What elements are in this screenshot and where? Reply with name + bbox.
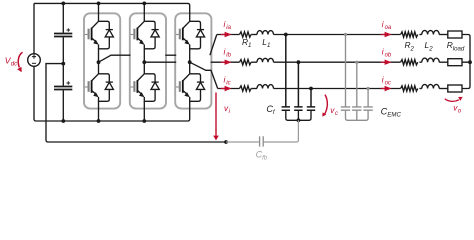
wire phase b xyxy=(251,61,257,63)
wire negative DC rail xyxy=(34,66,190,121)
wire phase a from leg1 xyxy=(99,55,131,62)
svg-text:c: c xyxy=(335,111,338,117)
inductor L2 phase b xyxy=(422,58,439,62)
arrow Vdc xyxy=(17,52,22,72)
wire phase c to load xyxy=(439,88,448,90)
IGBT module box leg 3 xyxy=(175,13,211,108)
node rail leg1 xyxy=(97,2,101,6)
node neg leg1 xyxy=(97,119,101,123)
label R1 xyxy=(242,37,251,49)
label CEMC xyxy=(381,106,402,118)
transistor T4 lower leg2 with diode xyxy=(131,74,160,102)
arrow voltage vc xyxy=(322,95,327,117)
svg-text:load: load xyxy=(453,45,465,52)
node rail leg2 xyxy=(142,2,146,6)
resistor R2 phase b xyxy=(401,60,418,65)
capacitor CEMC phase a xyxy=(341,35,350,111)
label L2 xyxy=(425,40,434,52)
label vi xyxy=(224,104,231,115)
svg-text:i: i xyxy=(224,20,226,29)
arrow current iia xyxy=(221,32,232,37)
wire phase a gap segment xyxy=(165,54,176,56)
arrow voltage vo xyxy=(445,97,463,102)
arrow voltage vi xyxy=(213,93,219,141)
voltage source Vdc xyxy=(28,54,41,67)
node neg leg2 xyxy=(142,119,146,123)
node leg2 midpoint xyxy=(142,60,146,64)
arrow current iib xyxy=(221,60,232,65)
svg-text:2: 2 xyxy=(428,45,433,52)
label R2 xyxy=(405,40,415,52)
IGBT module box leg 2 xyxy=(130,13,166,108)
svg-text:i: i xyxy=(224,75,226,84)
wire phase a xyxy=(251,34,257,36)
node neg cap xyxy=(61,119,65,123)
svg-text:oa: oa xyxy=(385,25,392,31)
svg-text:i: i xyxy=(224,48,226,57)
wire phase a xyxy=(419,34,421,36)
inductor L2 phase c xyxy=(422,84,439,88)
IGBT module box leg 1 xyxy=(84,13,120,108)
wire phase c line left xyxy=(218,88,240,90)
wire positive DC rail xyxy=(34,3,190,21)
wire leg2 collector xyxy=(143,3,145,21)
svg-text:1: 1 xyxy=(248,42,251,49)
node Cf tap b xyxy=(297,60,301,64)
label Rload xyxy=(447,40,465,52)
node rail cap xyxy=(61,2,65,6)
resistor R2 phase a xyxy=(401,32,418,37)
inductor L1 phase b xyxy=(257,58,274,62)
svg-text:2: 2 xyxy=(410,45,415,52)
node right bus phase b xyxy=(468,60,472,64)
svg-text:EMC: EMC xyxy=(387,112,401,119)
wire CEMC star bus xyxy=(346,111,369,121)
capacitor DC-link lower xyxy=(54,81,72,89)
wire phase a line left xyxy=(217,34,240,36)
label Cfb xyxy=(256,150,268,162)
arrow current iob xyxy=(381,60,392,65)
transistor T1 upper leg1 with diode xyxy=(85,21,114,49)
wire phase a to load xyxy=(439,34,448,36)
inductor L2 phase a xyxy=(422,30,439,34)
label iob xyxy=(382,48,392,59)
capacitor DC-link upper xyxy=(54,28,72,36)
capacitor Cf phase c branch xyxy=(307,89,315,111)
node Cf star xyxy=(297,118,301,122)
inductor L1 phase c xyxy=(257,85,274,89)
label iia xyxy=(224,20,232,31)
capacitor Cfb xyxy=(260,136,264,146)
svg-text:i: i xyxy=(382,20,384,29)
label ioc xyxy=(382,75,391,86)
resistor R2 phase c xyxy=(401,86,418,91)
transistor T6 lower leg3 with diode xyxy=(176,74,205,102)
wire leg1 emitter xyxy=(98,101,100,121)
capacitor Cf phase a branch xyxy=(282,35,290,111)
arrow current iic xyxy=(221,86,232,91)
wire leg1 midpoint xyxy=(98,49,100,74)
wire Cfb branch gray xyxy=(226,120,298,142)
wire leg1 collector xyxy=(98,3,100,21)
resistor Rload phase a xyxy=(448,31,462,38)
svg-text:oc: oc xyxy=(385,80,391,86)
label iic xyxy=(224,75,231,86)
label L1 xyxy=(262,37,270,49)
svg-text:ib: ib xyxy=(226,53,231,59)
node DC midpoint xyxy=(61,62,65,66)
wire phase b middle xyxy=(274,61,401,63)
svg-text:ob: ob xyxy=(385,53,392,59)
wire phase c xyxy=(419,88,421,90)
resistor Rload phase c xyxy=(448,85,462,92)
label vo xyxy=(453,104,462,115)
wire phase a exit xyxy=(210,35,217,56)
resistor R1 phase b xyxy=(240,60,252,65)
transistor T2 lower leg1 with diode xyxy=(85,74,114,102)
label iib xyxy=(224,48,232,59)
svg-text:ic: ic xyxy=(226,80,230,86)
svg-text:i: i xyxy=(382,48,384,57)
wire Cf star bus xyxy=(286,111,311,121)
resistor Rload phase b xyxy=(448,59,462,66)
node CEMC tap b xyxy=(355,61,358,64)
label Cf xyxy=(266,104,276,116)
label ioa xyxy=(382,20,392,31)
resistor R1 phase a xyxy=(240,32,252,37)
wire phase c xyxy=(251,88,257,90)
wire leg2 midpoint xyxy=(143,49,145,74)
svg-text:dc: dc xyxy=(11,61,17,68)
svg-text:fb: fb xyxy=(262,155,268,162)
svg-text:i: i xyxy=(382,75,384,84)
inductor L1 phase a xyxy=(257,31,274,35)
wire phase b from leg2 xyxy=(144,61,176,63)
node CEMC tap a xyxy=(344,33,347,36)
wire leg2 emitter xyxy=(143,101,145,121)
wire phase a middle xyxy=(274,34,401,36)
node Cf tap c xyxy=(309,87,313,91)
wire leg3 midpoint xyxy=(189,49,191,74)
wire phase b line left xyxy=(211,61,240,63)
arrow current ioa xyxy=(381,32,392,37)
wire DC midpoint branch xyxy=(46,64,226,142)
node leg3 midpoint xyxy=(188,60,192,64)
arrow current ioc xyxy=(381,86,392,91)
transistor T3 upper leg2 with diode xyxy=(131,21,160,49)
label vc xyxy=(330,106,338,117)
wire DC-link capacitor branch xyxy=(62,3,64,121)
capacitor CEMC phase c xyxy=(363,89,372,111)
wire right bus xyxy=(462,35,470,89)
wire phase b xyxy=(419,61,421,63)
capacitor CEMC phase b xyxy=(352,62,361,110)
wire phase c middle xyxy=(274,88,401,90)
capacitor Cf phase b branch xyxy=(294,62,302,110)
wire phase c from leg3 xyxy=(190,62,218,88)
wire DC source top xyxy=(33,3,35,53)
svg-text:ia: ia xyxy=(226,25,231,31)
resistor R1 phase c xyxy=(240,86,252,91)
node CEMC tap c xyxy=(367,87,370,90)
node Cf tap a xyxy=(284,33,288,37)
wire phase b to load xyxy=(439,61,448,63)
label Vdc xyxy=(5,56,17,68)
transistor T5 upper leg3 with diode xyxy=(176,21,205,49)
node leg1 midpoint xyxy=(97,60,101,64)
svg-text:1: 1 xyxy=(267,42,270,49)
node bottom line end xyxy=(224,140,228,144)
